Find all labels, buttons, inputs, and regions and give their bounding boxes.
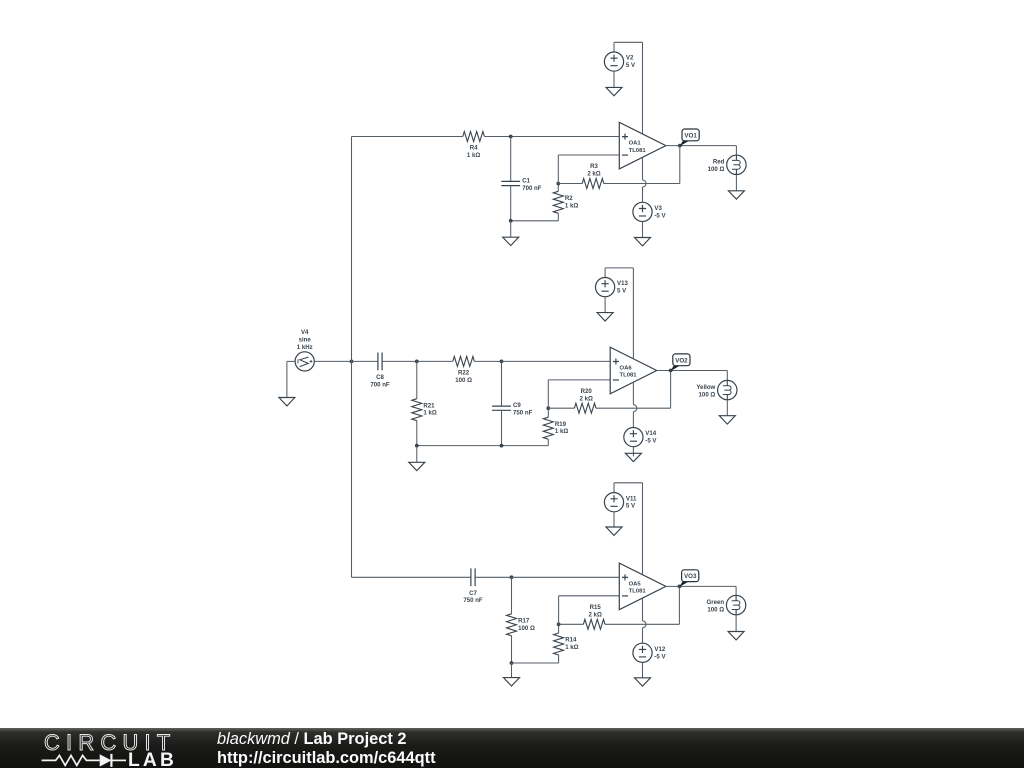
- node C junction: [510, 575, 514, 579]
- svg-text:5 V: 5 V: [626, 503, 636, 510]
- svg-text:100 Ω: 100 Ω: [699, 391, 716, 398]
- svg-text:TL081: TL081: [620, 373, 638, 379]
- CircuitLab logo diode: [100, 754, 112, 766]
- wire R17 bottom to R14: [512, 662, 559, 664]
- output junction VO1: [678, 144, 682, 148]
- feedback node 3 junction: [557, 622, 561, 626]
- wire V- supply from op-amp to V3: [642, 157, 644, 180]
- ground below Red lamp: [735, 175, 737, 191]
- svg-text:-5 V: -5 V: [654, 212, 666, 219]
- op-amp OA5: [619, 563, 666, 610]
- rail junction: [350, 360, 354, 364]
- svg-text:1 kΩ: 1 kΩ: [467, 152, 480, 159]
- wire node C to op-amp + input: [512, 576, 620, 578]
- svg-text:R21: R21: [423, 402, 435, 409]
- svg-text:750 nF: 750 nF: [463, 597, 483, 604]
- svg-text:V4: V4: [301, 329, 309, 336]
- voltage source V13: [604, 268, 606, 278]
- wire op-amp output: [666, 145, 737, 147]
- svg-text:-5 V: -5 V: [654, 653, 666, 660]
- svg-text:R2: R2: [565, 195, 573, 202]
- svg-text:TL081: TL081: [629, 148, 647, 154]
- voltage source V11: [613, 483, 615, 493]
- svg-text:1 kHz: 1 kHz: [297, 344, 313, 351]
- node flag VO2: [670, 366, 680, 372]
- resistor R20: [574, 403, 596, 413]
- voltage source V14: [624, 428, 643, 447]
- svg-text:Green: Green: [706, 599, 724, 606]
- svg-text:TL081: TL081: [629, 589, 647, 595]
- wire node A1 to op-amp + input: [511, 136, 620, 138]
- wire R22 to node B2: [474, 360, 501, 362]
- wire feedback node 3 to R15: [559, 623, 584, 625]
- resistor R4: [463, 132, 485, 142]
- wire top input from rail to R4: [352, 136, 463, 138]
- wire R15 to output riser 3: [605, 623, 679, 625]
- svg-text:R3: R3: [590, 163, 598, 170]
- svg-text:V12: V12: [654, 646, 665, 653]
- svg-text:V2: V2: [626, 55, 634, 62]
- wire output riser 3: [678, 586, 680, 624]
- svg-text:1 kΩ: 1 kΩ: [565, 644, 578, 651]
- voltage source V4 sine: [295, 352, 314, 371]
- wire C8 to node B1: [382, 360, 417, 362]
- svg-text:C1: C1: [522, 178, 530, 185]
- wire feedback node 2 to R20: [548, 407, 574, 409]
- resistor R14: [558, 624, 560, 633]
- resistor R19: [547, 408, 549, 417]
- output junction VO3: [678, 585, 682, 589]
- ground below V13: [604, 297, 606, 313]
- voltage source V12: [633, 643, 652, 662]
- svg-text:2 kΩ: 2 kΩ: [580, 395, 593, 402]
- svg-text:V11: V11: [626, 495, 637, 502]
- svg-text:5 V: 5 V: [626, 62, 636, 69]
- ground below V4: [279, 398, 295, 406]
- svg-text:-5 V: -5 V: [645, 438, 657, 445]
- wire V4 to ground drop: [287, 360, 295, 362]
- svg-text:1 kΩ: 1 kΩ: [555, 428, 568, 435]
- wire node B1 to R22: [417, 360, 453, 362]
- svg-text:Yellow: Yellow: [696, 384, 715, 391]
- svg-text:OA1: OA1: [629, 141, 642, 147]
- svg-text:100 Ω: 100 Ω: [707, 606, 724, 613]
- vertical rail wire: [351, 137, 353, 578]
- resistor R2: [557, 184, 559, 192]
- svg-text:V13: V13: [617, 280, 628, 287]
- wire R4 to node A1: [484, 136, 510, 138]
- wire feedback node to R3: [558, 183, 582, 185]
- junction R21 bottom: [415, 444, 419, 448]
- svg-text:R14: R14: [565, 637, 577, 644]
- svg-text:V14: V14: [645, 430, 656, 437]
- junction R17 bottom: [510, 661, 514, 665]
- svg-text:OA6: OA6: [620, 366, 633, 372]
- ground below V12: [642, 662, 644, 677]
- resistor R21: [416, 361, 418, 398]
- svg-text:2 kΩ: 2 kΩ: [589, 611, 602, 618]
- svg-text:C8: C8: [376, 374, 384, 381]
- svg-text:R19: R19: [555, 421, 567, 428]
- svg-text:1 kΩ: 1 kΩ: [565, 202, 578, 209]
- wire output riser 2: [670, 371, 672, 409]
- svg-text:100 Ω: 100 Ω: [708, 166, 725, 173]
- wire bottom node to R2 bottom: [511, 220, 559, 222]
- wire feedback node 2 up to inverting input: [547, 380, 549, 408]
- ground below V2: [613, 71, 615, 87]
- ground below Green lamp: [735, 615, 737, 632]
- svg-text:VO1: VO1: [684, 132, 697, 139]
- svg-text:100 Ω: 100 Ω: [518, 625, 535, 632]
- wire C9 to bottom wire: [501, 410, 503, 445]
- svg-text:1 kΩ: 1 kΩ: [423, 410, 436, 417]
- svg-text:C9: C9: [513, 402, 521, 409]
- ground below V3: [642, 222, 644, 238]
- svg-text:100 Ω: 100 Ω: [455, 377, 472, 384]
- wire hop 3: [643, 621, 647, 628]
- ground below C1: [510, 221, 512, 237]
- wire V- supply 3: [642, 598, 644, 621]
- node B2 junction: [500, 360, 504, 364]
- node B1 junction: [415, 360, 419, 364]
- svg-text:R22: R22: [458, 369, 470, 376]
- svg-text:VO3: VO3: [684, 573, 697, 580]
- svg-text:R4: R4: [470, 145, 478, 152]
- svg-text:sine: sine: [299, 336, 312, 343]
- wire hop over feedback wire: [643, 180, 647, 187]
- wire C9 drop: [501, 361, 503, 406]
- capacitor C7: [470, 568, 472, 586]
- wire V- supply 2: [632, 382, 634, 405]
- svg-text:750 nF: 750 nF: [513, 410, 533, 417]
- feedback node 1 junction: [556, 182, 560, 186]
- node A1 junction: [509, 135, 513, 139]
- wire node A1 down to C1: [510, 137, 512, 182]
- CircuitLab logo resistor zigzag: [42, 755, 100, 765]
- ground below Yellow lamp: [726, 400, 728, 416]
- lamp Yellow: [726, 371, 728, 381]
- wire rail corner to C7: [352, 576, 471, 578]
- op-amp OA1: [619, 122, 666, 169]
- lamp Red: [735, 146, 737, 156]
- resistor R3: [582, 179, 604, 189]
- svg-text:5 V: 5 V: [617, 288, 627, 295]
- resistor R15: [583, 619, 605, 629]
- wire V+ supply top 2: [605, 267, 633, 269]
- svg-text:700 nF: 700 nF: [522, 185, 542, 192]
- resistor R22: [453, 356, 475, 366]
- wire feedback node 3 up to inverting input: [558, 596, 560, 625]
- svg-text:V3: V3: [654, 205, 662, 212]
- svg-text:Red: Red: [713, 159, 725, 166]
- node flag VO3: [679, 581, 689, 587]
- ground below V11: [613, 512, 615, 527]
- wire R3 to output riser: [604, 183, 680, 185]
- svg-text:C7: C7: [469, 590, 477, 597]
- wire C7 to node C1: [475, 576, 511, 578]
- svg-text:R17: R17: [518, 617, 530, 624]
- svg-text:700 nF: 700 nF: [370, 381, 390, 388]
- svg-text:R15: R15: [590, 604, 602, 611]
- svg-text:R20: R20: [581, 388, 593, 395]
- wire output riser to feedback: [679, 146, 681, 184]
- wire V4 to rail: [314, 360, 351, 362]
- junction C9 bottom: [500, 444, 504, 448]
- bottom wire stage 2: [417, 445, 549, 447]
- svg-text:VO2: VO2: [675, 357, 688, 364]
- wire rail to C8: [352, 360, 378, 362]
- capacitor C9: [492, 405, 511, 407]
- capacitor C1: [501, 180, 520, 182]
- svg-text:2 kΩ: 2 kΩ: [587, 171, 600, 178]
- op-amp OA6: [610, 347, 657, 394]
- node below C1 junction: [509, 219, 513, 223]
- wire hop 2: [633, 405, 637, 412]
- feedback node 2 junction: [546, 406, 550, 410]
- wire R20 to output riser 2: [596, 407, 671, 409]
- ground below R21: [416, 446, 418, 463]
- node flag VO1: [680, 141, 690, 147]
- capacitor C8: [377, 353, 379, 371]
- voltage source V3: [633, 202, 652, 221]
- wire V+ supply top: [614, 41, 643, 43]
- output junction VO2: [669, 369, 673, 373]
- wire V+ supply top 3: [614, 482, 643, 484]
- wire feedback node up to inverting input: [557, 155, 559, 184]
- wire C1 to bottom node: [510, 186, 512, 221]
- wire node B2 to op-amp + input: [502, 360, 611, 362]
- svg-text:OA5: OA5: [629, 582, 642, 588]
- wire op-amp output 3: [666, 585, 736, 587]
- wire op-amp output 2: [657, 370, 728, 372]
- ground below V14: [632, 447, 634, 457]
- ground below R17: [511, 663, 513, 678]
- resistor R17: [511, 577, 513, 614]
- lamp Green: [735, 586, 737, 595]
- voltage source V2: [613, 42, 615, 52]
